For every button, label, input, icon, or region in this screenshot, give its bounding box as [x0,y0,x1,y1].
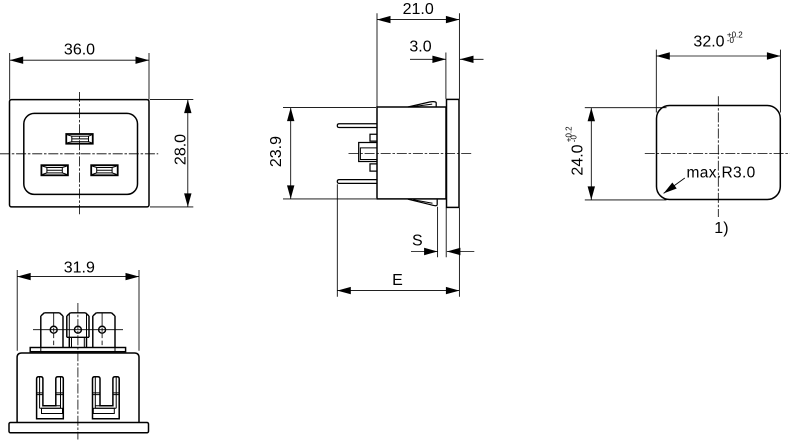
right spring clip [93,377,120,419]
dimension 36.0 [10,42,149,100]
svg-text:S: S [412,233,423,250]
svg-text:max.R3.0: max.R3.0 [687,164,756,181]
svg-text:28.0: 28.0 [172,134,189,165]
side view flange [447,99,460,207]
upper small notch [370,134,377,141]
svg-text:3.0: 3.0 [409,39,431,56]
left spring clip [37,377,64,419]
front view inner face [24,113,138,194]
svg-text:23.9: 23.9 [268,136,285,167]
dimension 21.0 [377,1,459,107]
top flat terminal pin [337,124,377,128]
dimension 28.0 [150,100,193,207]
svg-text:1): 1) [714,220,728,237]
lower small notch [370,164,377,171]
dimension 24.0 with tolerance [565,108,667,200]
bottom vertical centerline [77,303,79,440]
bottom-left contact slot [41,165,68,175]
middle terminal block [359,143,377,162]
bottom snap latch [408,199,437,206]
svg-text:21.0: 21.0 [403,1,434,18]
cutout vertical centerline [717,96,719,217]
right terminal block [93,313,115,348]
svg-text:-0: -0 [727,36,735,45]
rivet axis line [33,329,123,331]
svg-text:24.0: 24.0 [569,144,586,175]
dimension E [337,184,459,297]
left terminal block [41,313,63,348]
dimension 23.9 [268,108,376,199]
dimension 32.0 with tolerance [656,30,780,112]
bottom view flange [9,423,149,433]
svg-text:32.0: 32.0 [693,34,724,51]
panel cutout outline [657,106,781,200]
front vertical centerline [79,92,81,214]
svg-text:E: E [392,272,403,289]
dimension S [411,207,474,257]
bottom-right contact slot [91,165,118,175]
front horizontal centerline [0,153,158,155]
bottom flat terminal pin [337,180,377,184]
dimension 3.0 [409,39,483,99]
terminal base strip [30,348,125,352]
svg-text:31.9: 31.9 [64,260,95,277]
top contact slot [66,134,93,144]
cutout horizontal centerline [645,152,790,154]
svg-text:-0: -0 [569,135,578,143]
top snap latch [408,102,436,107]
front view body outline [10,100,150,207]
middle terminal block [67,313,89,348]
side horizontal centerline [349,152,473,154]
dimension 31.9 [17,260,139,351]
bottom view body [17,353,139,423]
side view body [377,107,446,199]
max corner radius callout [664,164,756,193]
svg-text:36.0: 36.0 [64,42,95,59]
